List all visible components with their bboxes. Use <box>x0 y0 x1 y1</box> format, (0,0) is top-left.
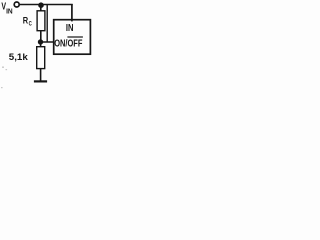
node junction dot at RC / 5.1k / ON-OFF <box>38 39 43 44</box>
svg-text:5,1k: 5,1k <box>9 51 29 62</box>
resistor 5.1k body <box>37 47 45 69</box>
ground <box>34 80 47 82</box>
wire stub below resistor 5.1k to ground <box>40 69 42 81</box>
wire vertical from top rail down to ON/OFF node <box>46 5 48 43</box>
svg-text:IN: IN <box>6 7 13 16</box>
label VIN <box>1 2 12 16</box>
wire top rail from VIN terminal to IN pin corner <box>20 4 73 6</box>
svg-text:C: C <box>29 21 33 27</box>
scan noise specks <box>1 67 7 89</box>
wire from node to ON/OFF pin of IC <box>41 41 54 43</box>
resistor RC body <box>37 11 45 31</box>
wire IN pin drop from rail into IC box <box>71 4 73 21</box>
IC box regulator <box>54 20 91 55</box>
svg-text:ON/OFF: ON/OFF <box>54 38 82 49</box>
svg-text:IN: IN <box>66 23 74 34</box>
pin label IN <box>66 23 74 34</box>
pin label ON/OFF <box>54 38 82 49</box>
overline over OFF <box>67 36 83 38</box>
label 5,1k <box>9 51 29 62</box>
wire stub below resistor RC to node <box>40 31 42 41</box>
terminal VIN input <box>14 2 19 7</box>
wire stub above resistor RC <box>40 5 42 11</box>
node junction dot on top rail <box>38 2 44 8</box>
wire stub above resistor 5.1k <box>40 43 42 47</box>
label RC <box>23 15 32 27</box>
